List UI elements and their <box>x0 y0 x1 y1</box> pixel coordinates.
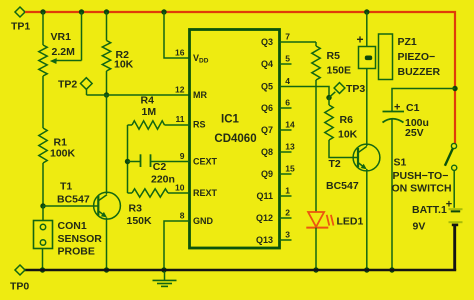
wire: Q3 (pin7) to R5 <box>280 41 317 43</box>
svg-text:C2: C2 <box>153 161 167 173</box>
svg-text:Q7: Q7 <box>261 125 273 135</box>
node: C1 tap on red rail <box>452 86 457 91</box>
IC1 pin 16 VDD label <box>175 48 209 65</box>
svg-text:BUZZER: BUZZER <box>398 66 441 78</box>
IC1 pin 8 GND label <box>180 211 214 227</box>
test point TP1 <box>11 7 30 33</box>
wire: rail to C1 <box>392 89 455 112</box>
svg-text:1M: 1M <box>142 106 157 118</box>
node: MR junction <box>104 92 109 97</box>
svg-text:BC547: BC547 <box>326 180 359 192</box>
wire: base node to T1 base <box>43 205 98 207</box>
node: T2 emitter on ground rail <box>364 267 369 272</box>
svg-text:10: 10 <box>175 183 185 193</box>
resistor R6 <box>325 98 358 158</box>
svg-text:100K: 100K <box>50 148 76 160</box>
svg-text:14: 14 <box>285 120 295 130</box>
positive supply rail (red) <box>25 12 455 144</box>
svg-text:T1: T1 <box>60 181 72 193</box>
svg-text:VR1: VR1 <box>51 31 72 43</box>
wire: CON1 to ground rail <box>42 249 44 271</box>
svg-text:R1: R1 <box>54 137 68 149</box>
svg-text:PIEZO−: PIEZO− <box>398 51 436 63</box>
resistor R5 <box>312 42 351 80</box>
node: T1 base junction <box>40 203 45 208</box>
svg-text:R6: R6 <box>340 114 354 126</box>
svg-text:2: 2 <box>285 208 290 218</box>
test point TP2 <box>58 78 92 91</box>
IC1 pin 3 Q13 stub <box>256 230 292 245</box>
svg-text:7: 7 <box>285 32 290 42</box>
svg-text:R4: R4 <box>141 94 155 106</box>
svg-text:RS: RS <box>193 120 206 130</box>
svg-text:16: 16 <box>175 48 185 58</box>
svg-text:TP1: TP1 <box>11 21 30 33</box>
svg-text:Q4: Q4 <box>261 59 273 69</box>
node: TP3/R6 junction <box>326 95 331 100</box>
transistor T1 BC547 <box>57 181 120 220</box>
ground rail (bottom) <box>25 269 457 271</box>
test point TP0 <box>10 265 29 293</box>
svg-text:10K: 10K <box>338 129 358 141</box>
IC1 pin 2 Q12 stub <box>256 208 292 223</box>
IC1 pin 13 Q8 stub <box>261 142 295 157</box>
wire: VDD supply wire <box>164 12 190 58</box>
svg-text:Q13: Q13 <box>256 235 273 245</box>
wire: battery negative to ground rail <box>453 225 456 270</box>
svg-text:LED1: LED1 <box>337 216 364 228</box>
svg-text:Q8: Q8 <box>261 147 273 157</box>
svg-text:SENSOR: SENSOR <box>58 233 103 245</box>
wire: REXT (pin10) wire <box>168 192 190 194</box>
svg-text:T2: T2 <box>329 158 341 170</box>
node: T1 emitter on ground rail <box>104 267 109 272</box>
svg-text:220n: 220n <box>151 173 175 185</box>
wire: MR (pin12) wire <box>87 94 190 96</box>
svg-text:12: 12 <box>175 85 185 95</box>
IC1 pin 1 Q11 stub <box>256 186 291 201</box>
svg-text:3: 3 <box>285 230 290 240</box>
wire: VR1 wiper to rail <box>81 12 83 61</box>
svg-text:5: 5 <box>285 54 290 64</box>
wire: T2 collector to PZ1 <box>366 69 368 147</box>
resistor R4 <box>128 94 165 129</box>
svg-text:TP3: TP3 <box>346 83 365 95</box>
svg-text:Q5: Q5 <box>261 82 273 92</box>
ground symbol <box>153 270 177 286</box>
svg-text:Q3: Q3 <box>261 37 273 47</box>
svg-text:REXT: REXT <box>193 188 218 198</box>
svg-text:11: 11 <box>176 114 185 124</box>
svg-text:S1: S1 <box>394 157 407 169</box>
node: VDD tap on rail <box>161 9 166 14</box>
svg-text:PZ1: PZ1 <box>398 36 417 48</box>
LED LED1 <box>306 212 363 228</box>
resistor R1 <box>39 128 76 163</box>
svg-text:R3: R3 <box>129 203 143 215</box>
wire: rail to VR1 <box>42 12 44 45</box>
svg-text:CON1: CON1 <box>58 220 87 232</box>
switch S1 push-to-on <box>392 143 457 194</box>
wire: T1 emitter to ground rail <box>106 218 108 271</box>
svg-text:10K: 10K <box>114 59 134 71</box>
svg-text:8: 8 <box>180 211 185 221</box>
wire: C1 to ground rail <box>391 119 393 270</box>
svg-text:C1: C1 <box>406 102 420 114</box>
svg-text:9: 9 <box>180 151 185 161</box>
svg-text:+: + <box>394 102 400 114</box>
capacitor C2 <box>141 154 175 185</box>
svg-text:15: 15 <box>285 164 295 174</box>
svg-text:PROBE: PROBE <box>58 246 95 258</box>
svg-text:150K: 150K <box>127 215 153 227</box>
wire: T2 emitter to ground rail <box>366 169 368 270</box>
svg-text:9V: 9V <box>413 220 426 232</box>
IC1 pin 6 Q6 stub <box>261 98 292 113</box>
node: C1 on ground rail <box>389 267 394 272</box>
svg-text:Q9: Q9 <box>261 169 273 179</box>
transistor T2 BC547 <box>326 144 380 192</box>
capacitor C1 <box>383 102 429 140</box>
svg-text:6: 6 <box>285 98 290 108</box>
node: VR1 top on rail <box>40 9 45 14</box>
node: PZ1 tap on rail <box>364 9 369 14</box>
potentiometer VR1 <box>39 31 82 76</box>
wire: VR1 to R1 <box>42 76 44 128</box>
svg-text:Q11: Q11 <box>256 191 273 201</box>
IC1 pin 11 RS label <box>176 114 206 130</box>
piezo buzzer PZ1 <box>357 12 441 80</box>
wire: R5 to LED1 anode <box>315 80 317 212</box>
resistor R2 <box>102 12 133 95</box>
wire: Q5 (pin4) wire <box>280 87 330 98</box>
IC1 pin 12 MR label <box>175 85 207 101</box>
IC1 pin 14 Q7 stub <box>261 120 295 135</box>
IC1 pin 15 Q9 stub <box>261 164 295 179</box>
connector CON1 sensor probe <box>34 220 103 258</box>
svg-text:Q6: Q6 <box>261 103 273 113</box>
svg-text:GND: GND <box>193 216 214 226</box>
IC1 pin 9 CEXT label <box>180 151 218 167</box>
wire: TP2 to MR wire <box>86 89 88 95</box>
wire: MR node to T1 collector <box>106 95 108 194</box>
wire: LED1 cathode to ground rail <box>315 228 317 270</box>
svg-text:BATT.1: BATT.1 <box>412 204 447 216</box>
svg-text:+: + <box>357 33 364 47</box>
IC1 pin 5 Q4 stub <box>261 54 292 69</box>
svg-text:IC1: IC1 <box>221 114 240 126</box>
wire: CEXT (pin9) wire <box>151 161 190 163</box>
svg-text:PUSH−TO−: PUSH−TO− <box>393 170 449 182</box>
svg-text:150E: 150E <box>327 65 352 77</box>
wire: base node to CON1 <box>42 206 44 221</box>
svg-text:Q12: Q12 <box>256 213 273 223</box>
wire: RS (pin11) wire <box>165 124 190 126</box>
svg-text:13: 13 <box>285 142 295 152</box>
svg-text:TP0: TP0 <box>10 281 29 293</box>
svg-text:1: 1 <box>285 186 290 196</box>
node: LED1 on ground rail <box>313 267 318 272</box>
svg-text:CEXT: CEXT <box>193 157 218 167</box>
svg-text:2.2M: 2.2M <box>52 46 76 58</box>
svg-text:25V: 25V <box>405 127 424 139</box>
resistor R3 <box>127 189 169 227</box>
svg-text:BC547: BC547 <box>57 194 90 206</box>
IC IC1 CD4060 body <box>190 30 280 249</box>
node: C2 left junction <box>125 159 130 164</box>
node: R2 top on rail <box>104 9 109 14</box>
svg-text:R5: R5 <box>327 50 341 62</box>
wire: GND (pin8) wire <box>164 221 190 270</box>
IC1 pin 10 REXT label <box>175 183 217 199</box>
wire: junction to C2 <box>128 161 141 163</box>
wire: R1 to T1 base node <box>42 163 44 206</box>
IC1 pin 4 Q5 stub <box>261 76 290 91</box>
wire: switch to battery <box>453 170 455 208</box>
svg-text:4: 4 <box>285 76 290 86</box>
battery BATT.1 9V <box>412 199 463 233</box>
svg-text:ON SWITCH: ON SWITCH <box>392 183 452 195</box>
IC1 pin 7 Q3 stub <box>261 32 290 47</box>
test point TP3 <box>329 83 365 98</box>
node: CON1 on ground rail <box>40 267 45 272</box>
svg-text:MR: MR <box>193 90 207 100</box>
node: VR1 wiper tap on rail <box>79 9 84 14</box>
wire: R4/C2/R3 vertical <box>127 125 129 193</box>
svg-text:TP2: TP2 <box>58 79 77 91</box>
svg-text:CD4060: CD4060 <box>214 133 256 145</box>
node: ground junction <box>161 267 166 272</box>
